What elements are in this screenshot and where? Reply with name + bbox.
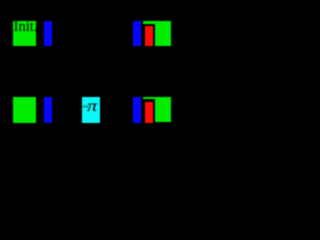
gate red box B <box>145 102 152 123</box>
gate cyan box with ~pi label (row 2, middle) <box>82 97 100 123</box>
gate red box A <box>145 26 152 46</box>
label Init. <box>14 20 44 35</box>
gate green box C (row 2, col 1) <box>13 97 36 123</box>
gate Init (green box, qubit row 1) <box>13 21 36 46</box>
gate red box A outline (black rim over green box B) <box>143 24 156 49</box>
barrier/gate blue box C (row 2, col 2) <box>44 97 52 123</box>
gate green box D (row 2, right group) <box>143 97 171 123</box>
label ~pi <box>83 100 101 115</box>
gate red box B outline (black rim over green box D) <box>143 99 156 125</box>
barrier/gate blue box D (row 2, right group) <box>133 97 141 123</box>
gate green box B (row 1, right group) <box>143 21 171 46</box>
barrier/gate blue box B (row 1, right group) <box>133 21 141 46</box>
barrier/gate blue box A (row 1, col 2) <box>44 21 52 46</box>
